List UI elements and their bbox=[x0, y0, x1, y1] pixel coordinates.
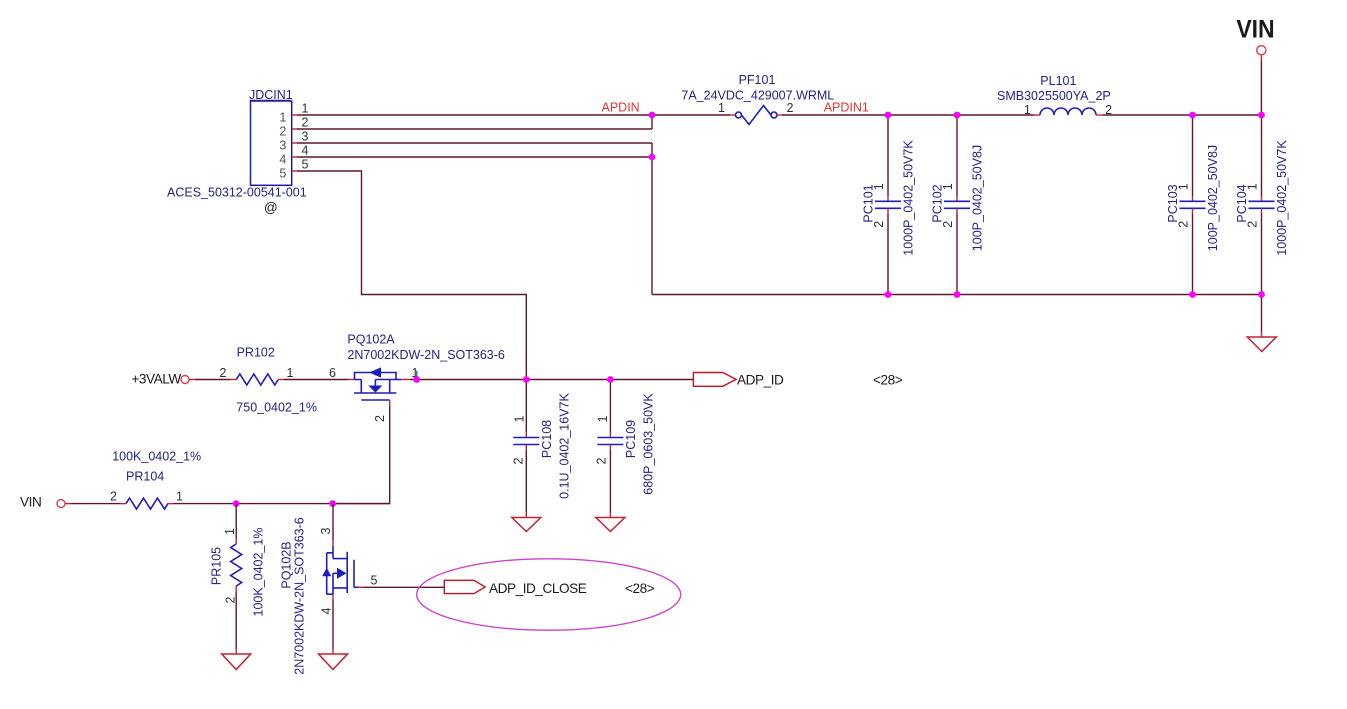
svg-text:PQ102B: PQ102B bbox=[279, 541, 293, 588]
junction PC103 top bbox=[1189, 112, 1196, 119]
svg-text:3: 3 bbox=[319, 527, 333, 534]
junction PC108 top bbox=[523, 376, 530, 383]
svg-text:2: 2 bbox=[224, 596, 238, 603]
svg-text:2: 2 bbox=[1246, 221, 1260, 228]
svg-text:SMB3025500YA_2P: SMB3025500YA_2P bbox=[997, 89, 1111, 103]
svg-text:2: 2 bbox=[595, 457, 609, 464]
svg-text:1000P_0402_50V7K: 1000P_0402_50V7K bbox=[1275, 140, 1289, 256]
wire pin3 bbox=[292, 143, 652, 295]
connector value label bbox=[167, 186, 307, 215]
wire PQ102A pin1 to ADP_ID port bbox=[396, 379, 693, 381]
svg-text:<28>: <28> bbox=[873, 373, 903, 388]
wire PR102 to Q bbox=[284, 379, 355, 381]
wire pin1 bbox=[292, 114, 652, 116]
svg-text:4: 4 bbox=[320, 607, 334, 614]
connector pin numbers inside bbox=[279, 110, 286, 180]
svg-text:1: 1 bbox=[176, 490, 183, 504]
svg-text:PL101: PL101 bbox=[1040, 74, 1076, 88]
junction PC109 top bbox=[607, 376, 614, 383]
resistor PR102 bbox=[220, 346, 317, 415]
svg-text:@: @ bbox=[264, 200, 277, 215]
svg-text:100K_0402_1%: 100K_0402_1% bbox=[112, 450, 201, 464]
wire APDIN1 bbox=[777, 114, 782, 116]
svg-text:2: 2 bbox=[302, 115, 309, 129]
wire APDIN to fuse bbox=[652, 114, 730, 116]
svg-text:100P_0402_50V8J: 100P_0402_50V8J bbox=[971, 145, 985, 251]
highlight ellipse bbox=[417, 559, 681, 630]
junction PC102 top bbox=[954, 112, 961, 119]
transistor PQ102A bbox=[329, 333, 505, 422]
gate wire PQ102A bbox=[333, 400, 390, 504]
svg-text:1: 1 bbox=[872, 183, 886, 190]
wire to ground right bbox=[1261, 295, 1263, 338]
svg-text:7A_24VDC_429007.WRML: 7A_24VDC_429007.WRML bbox=[681, 89, 834, 103]
svg-text:PR102: PR102 bbox=[237, 346, 275, 360]
junction node APDIN bbox=[649, 112, 656, 119]
junction PC102 bottom bbox=[954, 291, 961, 298]
junction PC101 bottom bbox=[885, 291, 892, 298]
svg-text:APDIN1: APDIN1 bbox=[824, 101, 869, 115]
ground PQ102B bbox=[319, 654, 348, 670]
svg-text:1: 1 bbox=[1177, 183, 1191, 190]
wire inductor to VIN node bbox=[1103, 114, 1262, 116]
svg-text:2: 2 bbox=[872, 221, 886, 228]
svg-text:1: 1 bbox=[302, 101, 309, 115]
svg-text:3: 3 bbox=[279, 138, 286, 152]
terminal VIN left bbox=[20, 495, 121, 510]
svg-text:1: 1 bbox=[279, 110, 286, 124]
svg-text:750_0402_1%: 750_0402_1% bbox=[236, 401, 317, 415]
svg-text:5: 5 bbox=[279, 166, 286, 180]
svg-text:1: 1 bbox=[513, 415, 527, 422]
resistor PR105 bbox=[209, 504, 265, 649]
junction PC104 bottom bbox=[1258, 291, 1265, 298]
inductor PL101 bbox=[997, 74, 1112, 117]
junction pin4 bbox=[649, 154, 656, 161]
svg-text:2: 2 bbox=[941, 221, 955, 228]
wire pin2 bbox=[292, 115, 652, 129]
ground PC109 bbox=[596, 512, 625, 532]
wire PQ102B source to ground bbox=[332, 594, 334, 654]
svg-text:1: 1 bbox=[223, 528, 237, 535]
svg-text:ACES_50312-00541-001: ACES_50312-00541-001 bbox=[167, 186, 307, 200]
svg-text:1000P_0402_50V7K: 1000P_0402_50V7K bbox=[902, 140, 916, 256]
svg-text:PC109: PC109 bbox=[624, 420, 638, 458]
svg-text:1: 1 bbox=[287, 366, 294, 380]
svg-text:3: 3 bbox=[302, 129, 309, 143]
capacitor PC102 bbox=[930, 115, 984, 295]
wire VIN net bbox=[173, 503, 390, 505]
svg-text:2N7002KDW-2N_SOT363-6: 2N7002KDW-2N_SOT363-6 bbox=[347, 348, 505, 362]
svg-text:1: 1 bbox=[718, 101, 725, 115]
svg-text:100K_0402_1%: 100K_0402_1% bbox=[252, 528, 266, 617]
terminal +3VALW bbox=[131, 372, 230, 387]
svg-text:PF101: PF101 bbox=[739, 73, 776, 87]
svg-text:PR104: PR104 bbox=[126, 470, 164, 484]
wire pin5 to ADP_ID node bbox=[292, 171, 526, 380]
ground PC108 bbox=[512, 512, 541, 532]
svg-text:100P_0402_50V8J: 100P_0402_50V8J bbox=[1206, 145, 1220, 251]
svg-text:2: 2 bbox=[279, 124, 286, 138]
capacitor PC101 bbox=[861, 115, 915, 295]
svg-text:5: 5 bbox=[302, 157, 309, 171]
svg-text:2: 2 bbox=[373, 415, 387, 422]
gate wire PQ102B to port bbox=[354, 586, 445, 588]
connector pin numbers outside bbox=[302, 101, 309, 171]
svg-text:2N7002KDW-2N_SOT363-6: 2N7002KDW-2N_SOT363-6 bbox=[292, 517, 306, 675]
svg-text:4: 4 bbox=[302, 143, 309, 157]
svg-text:1: 1 bbox=[1246, 183, 1260, 190]
svg-text:PR105: PR105 bbox=[209, 547, 223, 585]
svg-text:1: 1 bbox=[941, 183, 955, 190]
svg-text:APDIN: APDIN bbox=[602, 101, 640, 115]
svg-text:ADP_ID: ADP_ID bbox=[737, 373, 784, 388]
svg-text:2: 2 bbox=[110, 490, 117, 504]
svg-text:PC108: PC108 bbox=[540, 420, 554, 458]
junction PC101 top bbox=[885, 112, 892, 119]
svg-text:<28>: <28> bbox=[625, 581, 655, 596]
junction PC103 bottom bbox=[1189, 291, 1196, 298]
svg-text:0.1U_0402_16V7K: 0.1U_0402_16V7K bbox=[557, 393, 571, 499]
junction PC104 top bbox=[1258, 112, 1265, 119]
svg-text:2: 2 bbox=[1177, 221, 1191, 228]
svg-text:680P_0603_50VK: 680P_0603_50VK bbox=[641, 393, 655, 495]
svg-text:PQ102A: PQ102A bbox=[347, 333, 395, 347]
wire pin4 bbox=[292, 156, 652, 158]
svg-text:2: 2 bbox=[787, 101, 794, 115]
svg-text:6: 6 bbox=[329, 366, 336, 380]
resistor PR104 bbox=[110, 450, 201, 510]
svg-text:1: 1 bbox=[1024, 103, 1031, 117]
svg-text:VIN: VIN bbox=[1236, 16, 1274, 44]
svg-text:5: 5 bbox=[371, 574, 378, 588]
power terminal VIN top bbox=[1236, 16, 1274, 115]
ground PR105 bbox=[222, 649, 251, 670]
svg-text:ADP_ID_CLOSE: ADP_ID_CLOSE bbox=[489, 581, 587, 596]
svg-text:2: 2 bbox=[220, 366, 227, 380]
connector JDCIN1 bbox=[249, 88, 293, 185]
ground right bbox=[1247, 337, 1276, 352]
transistor PQ102B bbox=[279, 504, 377, 675]
junction PR105 top bbox=[233, 500, 240, 507]
fuse PF101 bbox=[681, 73, 834, 125]
capacitor PC103 bbox=[1166, 115, 1220, 295]
svg-text:4: 4 bbox=[279, 152, 286, 166]
port ADP_ID_CLOSE bbox=[444, 580, 654, 596]
svg-text:2: 2 bbox=[512, 457, 526, 464]
svg-text:VIN: VIN bbox=[20, 495, 41, 510]
capacitor PC109 bbox=[595, 380, 656, 513]
capacitor PC104 bbox=[1235, 115, 1289, 295]
capacitor PC108 bbox=[512, 380, 572, 513]
ground rail wire bbox=[652, 294, 1262, 296]
junction PQ102A pin1 bbox=[413, 376, 420, 383]
svg-text:1: 1 bbox=[596, 415, 610, 422]
port ADP_ID bbox=[693, 373, 902, 388]
svg-text:+3VALW: +3VALW bbox=[131, 372, 181, 387]
junction PQ102B drain bbox=[329, 500, 336, 507]
